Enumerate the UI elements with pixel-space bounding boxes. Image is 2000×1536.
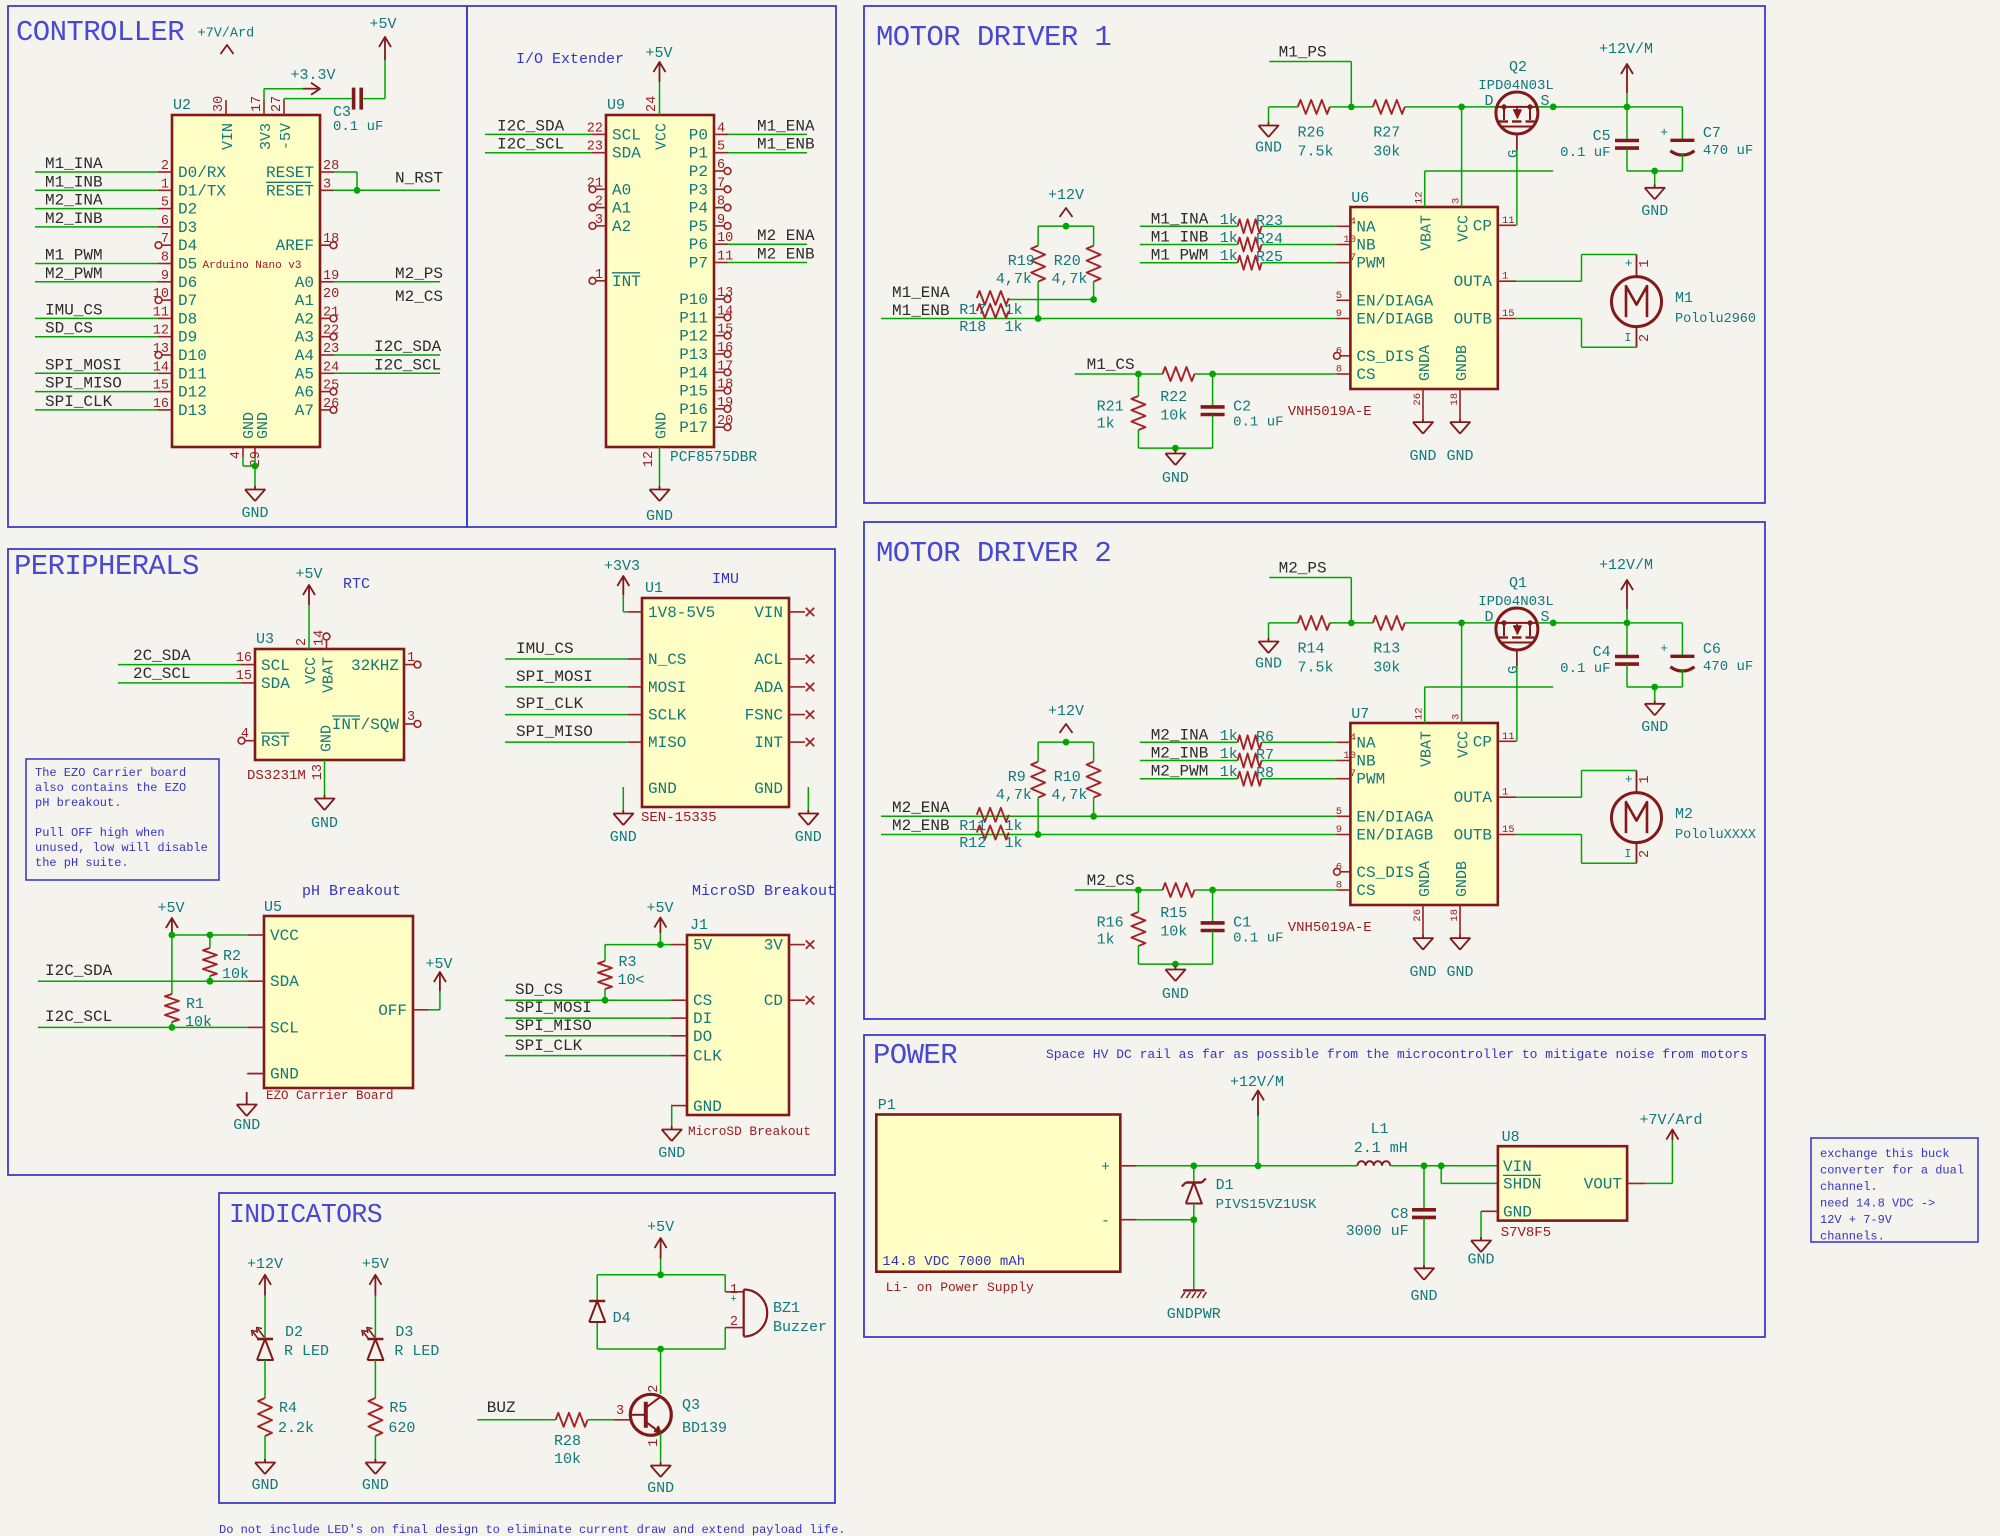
svg-text:PWM: PWM — [1356, 771, 1385, 789]
wire +5V to U9 VCC — [659, 82, 661, 115]
power symbol +12V (D2) — [247, 1256, 283, 1296]
wire OFF to +5V — [428, 991, 440, 1010]
svg-text:VCC: VCC — [270, 927, 299, 945]
wire P1 plus rail — [1137, 1162, 1358, 1169]
svg-text:GND: GND — [647, 1480, 674, 1497]
svg-text:0.1 uF: 0.1 uF — [1233, 931, 1283, 947]
svg-text:P1: P1 — [689, 145, 708, 163]
svg-text:SPI_MOSI: SPI_MOSI — [516, 668, 593, 686]
wire R5 to GND — [374, 1436, 376, 1459]
svg-text:-: - — [1101, 1213, 1110, 1230]
svg-text:A5: A5 — [295, 365, 314, 383]
svg-text:the pH suite.: the pH suite. — [35, 856, 129, 870]
svg-text:A0: A0 — [612, 181, 631, 199]
note text indicators — [219, 1523, 846, 1536]
svg-text:GNDPWR: GNDPWR — [1167, 1306, 1221, 1323]
svg-text:2: 2 — [1638, 850, 1653, 858]
LED D3 — [362, 1324, 440, 1360]
resistor R2 — [203, 935, 249, 983]
ground GND (GNDB) — [1446, 389, 1473, 465]
svg-text:R5: R5 — [389, 1400, 407, 1417]
power symbol +7V/Ard (POWER) — [1639, 1112, 1702, 1140]
svg-text:+12V: +12V — [247, 1256, 283, 1273]
resistor R19 — [996, 226, 1045, 322]
svg-text:0.1 uF: 0.1 uF — [333, 119, 383, 135]
svg-text:1: 1 — [647, 1439, 662, 1447]
svg-text:P4: P4 — [689, 200, 708, 218]
svg-text:VOUT: VOUT — [1584, 1175, 1622, 1193]
wire SHDN branch — [1441, 1166, 1499, 1184]
svg-text:GND: GND — [648, 780, 677, 798]
wire +3V3 to U1 — [623, 595, 628, 612]
svg-text:INT/SQW: INT/SQW — [332, 716, 400, 734]
wire U1 GND left — [622, 787, 624, 810]
wire + net label M1_PS — [1269, 44, 1351, 107]
svg-text:R27: R27 — [1373, 125, 1400, 142]
svg-text:1k: 1k — [1005, 319, 1023, 336]
svg-text:CS: CS — [1356, 366, 1375, 384]
svg-text:+12V/M: +12V/M — [1599, 557, 1653, 574]
wire +5V to U3 VCC — [308, 605, 310, 649]
wire + net label I2C_SDA (U2) — [334, 338, 442, 356]
svg-text:M1_ENB: M1_ENB — [892, 302, 950, 320]
IC U6 VNH5019A-E — [1288, 190, 1517, 420]
svg-text:4: 4 — [229, 451, 244, 459]
svg-text:A4: A4 — [295, 347, 314, 365]
resistor R4 — [258, 1398, 314, 1437]
svg-text:M1_ENA: M1_ENA — [757, 117, 815, 135]
svg-text:12: 12 — [1414, 707, 1426, 720]
svg-text:GND: GND — [1467, 1252, 1494, 1269]
resistor R24 — [1238, 231, 1283, 252]
wire + net label I2C_SDA (U5) — [38, 962, 248, 985]
section border I/O Extender — [467, 6, 836, 527]
svg-text:SCL: SCL — [261, 657, 290, 675]
note text POWER — [1046, 1047, 1748, 1062]
wire ENB long — [881, 834, 1336, 836]
ground GND (U3) — [311, 795, 338, 832]
svg-text:4,7k: 4,7k — [1051, 271, 1087, 288]
svg-text:+5V: +5V — [645, 45, 672, 62]
svg-text:P15: P15 — [679, 383, 708, 401]
svg-text:G: G — [1506, 666, 1522, 674]
wire D4 branch — [596, 1275, 598, 1349]
svg-text:R23: R23 — [1256, 213, 1283, 230]
ground GND (J1) — [658, 1126, 685, 1162]
ground GND (U1 left) — [610, 810, 637, 846]
svg-text:4,7k: 4,7k — [996, 787, 1032, 804]
svg-text:12V + 7-9V: 12V + 7-9V — [1820, 1213, 1893, 1227]
svg-text:A6: A6 — [295, 384, 314, 402]
transistor Q3 BD139 — [630, 1385, 727, 1447]
svg-text:A2: A2 — [612, 218, 631, 236]
svg-text:P12: P12 — [679, 328, 708, 346]
capacitor C4 — [1560, 623, 1639, 687]
svg-text:R LED: R LED — [284, 1343, 329, 1360]
svg-text:P10: P10 — [679, 291, 708, 309]
wire + net label M1_INB (U2) — [35, 173, 158, 191]
svg-text:MISO: MISO — [648, 734, 686, 752]
svg-text:1: 1 — [1638, 776, 1653, 784]
IC U2 Arduino Nano v3 — [153, 96, 339, 467]
svg-text:IPD04N03L: IPD04N03L — [1478, 594, 1554, 610]
svg-text:R6: R6 — [1256, 729, 1274, 746]
svg-text:GND: GND — [1162, 470, 1189, 487]
wire + net label M1_INA — [1140, 210, 1337, 229]
svg-text:A7: A7 — [295, 402, 314, 420]
ground GND (RC) — [1162, 450, 1189, 487]
svg-text:U1: U1 — [645, 580, 663, 597]
svg-text:5V: 5V — [693, 937, 713, 955]
svg-text:A1: A1 — [612, 200, 631, 218]
svg-text:D1: D1 — [1216, 1177, 1234, 1194]
svg-text:MicroSD Breakout: MicroSD Breakout — [688, 1124, 811, 1139]
svg-text:10k: 10k — [1160, 924, 1187, 941]
wire + net label M2_PWM — [1140, 763, 1337, 782]
svg-text:R28: R28 — [554, 1433, 581, 1450]
svg-text:DI: DI — [693, 1010, 712, 1028]
svg-text:M1_PS: M1_PS — [1279, 44, 1327, 62]
svg-text:IMU_CS: IMU_CS — [516, 640, 574, 658]
wire + net label BUZ — [477, 1399, 555, 1420]
svg-text:7: 7 — [1350, 252, 1356, 264]
wire R-R junction — [1330, 104, 1373, 111]
svg-text:N_RST: N_RST — [395, 169, 443, 187]
wire MOSFET S to +12V/M rail — [1538, 620, 1683, 627]
svg-text:GND: GND — [1641, 719, 1668, 736]
wire pullup rail — [1038, 739, 1094, 746]
svg-text:4,7k: 4,7k — [996, 271, 1032, 288]
resistor R16 — [1097, 890, 1146, 964]
svg-text:14.8 VDC 7000 mAh: 14.8 VDC 7000 mAh — [882, 1254, 1025, 1270]
svg-text:GND: GND — [270, 1066, 299, 1084]
resistor R20 — [1051, 226, 1100, 303]
svg-text:R8: R8 — [1256, 765, 1274, 782]
svg-text:need 14.8 VDC ->: need 14.8 VDC -> — [1820, 1197, 1935, 1211]
wire +5V/R3 to J1 5V — [605, 933, 671, 948]
svg-text:NA: NA — [1356, 218, 1376, 236]
svg-text:D3: D3 — [395, 1324, 413, 1341]
svg-text:SPI_CLK: SPI_CLK — [516, 695, 584, 713]
svg-text:R25: R25 — [1256, 249, 1283, 266]
svg-text:I2C_SDA: I2C_SDA — [374, 338, 442, 356]
svg-text:IMU_CS: IMU_CS — [45, 301, 103, 319]
svg-text:2.1 mH: 2.1 mH — [1354, 1140, 1408, 1157]
svg-text:SPI_MISO: SPI_MISO — [515, 1017, 592, 1035]
svg-text:1k: 1k — [1097, 416, 1115, 433]
svg-text:7.5k: 7.5k — [1298, 144, 1334, 161]
wire + net label SD_CS (U2) — [35, 320, 158, 338]
ground GND (M1_PS rail) — [1255, 122, 1282, 157]
wire +5V to U5 VCC — [169, 932, 249, 939]
svg-text:P13: P13 — [679, 346, 708, 364]
wire + net label M2_INB (U2) — [35, 210, 158, 228]
svg-text:P17: P17 — [679, 419, 708, 437]
svg-text:U9: U9 — [607, 97, 625, 114]
svg-text:VNH5019A-E: VNH5019A-E — [1288, 920, 1372, 936]
svg-text:Pull OFF high when: Pull OFF high when — [35, 826, 165, 840]
svg-text:U2: U2 — [173, 97, 191, 114]
svg-text:C1: C1 — [1233, 915, 1251, 932]
IC U3 DS3231M RTC — [236, 576, 421, 784]
wire Q3 emitter to GND — [660, 1433, 662, 1462]
svg-text:A0: A0 — [295, 274, 314, 292]
svg-text:M2_INA: M2_INA — [45, 192, 103, 210]
wire pullup rail — [1038, 223, 1094, 230]
net label M2_CS — [395, 288, 443, 306]
wire + net label 2C_SDA — [118, 647, 241, 665]
capacitor C1 — [1201, 890, 1284, 964]
svg-text:U3: U3 — [256, 631, 274, 648]
svg-text:D11: D11 — [178, 365, 207, 383]
wire U9 GND pin — [659, 447, 661, 486]
svg-text:MOTOR DRIVER 1: MOTOR DRIVER 1 — [876, 21, 1111, 54]
svg-text:10<: 10< — [618, 972, 645, 989]
svg-text:R10: R10 — [1054, 769, 1081, 786]
svg-text:P7: P7 — [689, 255, 708, 273]
wire R4 to GND — [264, 1436, 266, 1459]
capacitor C5 — [1560, 107, 1639, 171]
wire 3V3 to +3.3V — [264, 89, 303, 100]
svg-text:U7: U7 — [1351, 706, 1369, 723]
svg-text:M2_CS: M2_CS — [395, 288, 443, 306]
power symbol +5V (OFF) — [425, 956, 452, 991]
wire OUTA to motor — [1516, 255, 1636, 282]
wire + net label M2_INA — [1140, 726, 1337, 745]
svg-text:GND: GND — [610, 829, 637, 846]
svg-text:GND: GND — [795, 829, 822, 846]
wire + net label SPI_CLK (IMU) — [505, 695, 628, 715]
svg-text:+12V/M: +12V/M — [1230, 1074, 1284, 1091]
svg-text:P11: P11 — [679, 309, 708, 327]
svg-text:P2: P2 — [689, 163, 708, 181]
IC U1 IMU SEN-15335 — [628, 571, 814, 826]
ground GND (U9) — [646, 486, 673, 525]
svg-text:D10: D10 — [178, 347, 207, 365]
wire cap bottoms — [1627, 168, 1682, 175]
resistor R26 — [1298, 100, 1334, 161]
svg-text:R26: R26 — [1298, 125, 1325, 142]
inductor L1 — [1354, 1121, 1408, 1166]
svg-text:IMU: IMU — [712, 571, 739, 588]
wire C3 to +5V riser — [363, 60, 385, 99]
svg-text:P0: P0 — [689, 126, 708, 144]
svg-text:M2_ENA: M2_ENA — [892, 799, 950, 817]
power symbol +5V (BZ1) — [647, 1219, 674, 1259]
svg-text:CONTROLLER: CONTROLLER — [16, 16, 184, 49]
power symbol +12V/M (POWER) — [1230, 1074, 1284, 1116]
wire + net label M2_CS — [1075, 872, 1337, 893]
wire buzzer top rail — [597, 1274, 725, 1276]
svg-text:AREF: AREF — [276, 237, 314, 255]
svg-text:R16: R16 — [1097, 915, 1124, 932]
IC U5 EZO Carrier Board — [248, 883, 428, 1103]
svg-text:30k: 30k — [1373, 660, 1400, 677]
svg-text:INT: INT — [612, 273, 641, 291]
svg-text:CP: CP — [1473, 733, 1492, 751]
svg-text:GND: GND — [1410, 1288, 1437, 1305]
svg-text:3V3: 3V3 — [258, 123, 275, 150]
svg-text:GND: GND — [311, 815, 338, 832]
svg-text:D13: D13 — [178, 402, 207, 420]
svg-text:SCL: SCL — [612, 126, 641, 144]
wire rail to MOSFET D — [1405, 620, 1496, 627]
transistor Q1 IPD04N03L — [1478, 575, 1554, 674]
wire U1 GND right — [807, 787, 809, 810]
svg-text:30k: 30k — [1373, 144, 1400, 161]
svg-text:SPI_CLK: SPI_CLK — [515, 1037, 583, 1055]
svg-text:VCC: VCC — [654, 123, 671, 150]
svg-text:M2 ENB: M2 ENB — [757, 246, 815, 264]
wire OUTB to motor — [1516, 319, 1636, 348]
svg-text:SPI_MISO: SPI_MISO — [45, 375, 122, 393]
svg-text:2C_SDA: 2C_SDA — [133, 647, 191, 665]
IC U9 PCF8575DBR — [587, 96, 758, 467]
svg-text:+7V/Ard: +7V/Ard — [1639, 1112, 1702, 1129]
svg-text:D5: D5 — [178, 256, 197, 274]
wire + net label M1_CS — [1075, 356, 1337, 377]
svg-text:C7: C7 — [1703, 125, 1721, 142]
svg-text:OUTA: OUTA — [1454, 789, 1493, 807]
section title MOTOR DRIVER 2 — [876, 537, 1111, 570]
svg-text:M2_INB: M2_INB — [45, 210, 103, 228]
wire D3 to R5 — [374, 1360, 376, 1398]
svg-text:C2: C2 — [1233, 399, 1251, 416]
svg-text:GND: GND — [658, 1145, 685, 1162]
resistor R13 — [1373, 616, 1405, 677]
svg-text:channel.: channel. — [1820, 1180, 1878, 1194]
wire + net label M2_INA (U2) — [35, 192, 158, 210]
svg-text:+5V: +5V — [369, 16, 396, 33]
svg-text:I/O Extender: I/O Extender — [516, 51, 624, 68]
wire R28 to Q3 base — [588, 1404, 630, 1420]
resistor R12 — [959, 826, 1022, 853]
wire + net label I2C_SCL (U2) — [334, 356, 441, 374]
svg-text:4: 4 — [1350, 216, 1356, 228]
wire ENA segment — [1009, 299, 1094, 301]
svg-text:RESET: RESET — [266, 182, 314, 200]
svg-text:2: 2 — [1638, 334, 1653, 342]
resistor R17 — [959, 291, 1022, 319]
net label M1_ENB — [892, 302, 950, 320]
svg-text:EN/DIAGA: EN/DIAGA — [1356, 292, 1433, 310]
svg-text:Li- on Power Supply: Li- on Power Supply — [886, 1280, 1034, 1295]
buzzer BZ1 — [730, 1283, 827, 1337]
wire + net label M1_ENA (U9) — [728, 117, 815, 135]
svg-text:SPI_MOSI: SPI_MOSI — [515, 999, 592, 1017]
ground GND (U8) — [1467, 1237, 1494, 1269]
svg-text:exchange this buck: exchange this buck — [1820, 1147, 1950, 1161]
wire buzzer bottom rail — [597, 1346, 725, 1353]
svg-text:ADA: ADA — [754, 679, 783, 697]
svg-text:VCC: VCC — [303, 657, 320, 684]
svg-text:BD139: BD139 — [682, 1420, 727, 1437]
power symbol +5V (U9) — [645, 45, 672, 82]
diode D1 PIVS15VZ1USK — [1182, 1166, 1317, 1220]
ground GND (U5) — [233, 1092, 260, 1134]
svg-text:Q2: Q2 — [1509, 59, 1527, 76]
svg-text:M2_CS: M2_CS — [1087, 872, 1135, 890]
svg-text:4: 4 — [1350, 732, 1356, 744]
power symbol +12V/M (MD1) — [1599, 41, 1653, 93]
svg-text:P6: P6 — [689, 236, 708, 254]
svg-text:0.1 uF: 0.1 uF — [1560, 145, 1610, 161]
svg-text:Space HV DC rail as far as pos: Space HV DC rail as far as possible from… — [1046, 1047, 1748, 1062]
svg-text:3: 3 — [616, 1404, 624, 1419]
section title CONTROLLER — [16, 16, 184, 49]
svg-text:1k: 1k — [1005, 835, 1023, 852]
svg-text:BUZ: BUZ — [487, 1399, 516, 1417]
wire + net label SPI_MOSI (IMU) — [505, 668, 628, 687]
svg-text:DS3231M: DS3231M — [247, 768, 306, 784]
svg-text:EN/DIAGA: EN/DIAGA — [1356, 808, 1433, 826]
resistor R7 — [1238, 747, 1274, 768]
svg-text:R19: R19 — [1008, 253, 1035, 270]
svg-text:620: 620 — [388, 1420, 415, 1437]
svg-text:CS_DIS: CS_DIS — [1356, 348, 1414, 366]
svg-text:converter for a dual: converter for a dual — [1820, 1164, 1964, 1178]
svg-text:C4: C4 — [1593, 644, 1611, 661]
svg-text:D1/TX: D1/TX — [178, 182, 226, 200]
svg-text:D4: D4 — [178, 237, 197, 255]
section title PERIPHERALS — [14, 550, 199, 583]
wire + net label M2_INB — [1140, 745, 1337, 764]
ground GND (U1 right) — [795, 810, 822, 846]
section title INDICATORS — [229, 1200, 382, 1230]
wire + net label IMU_CS — [505, 640, 628, 659]
svg-text:D3: D3 — [178, 219, 197, 237]
wire + net label 2C_SCL — [118, 665, 241, 683]
svg-text:GNDA: GNDA — [1417, 345, 1434, 381]
ground GNDPWR — [1167, 1290, 1221, 1323]
ground GND (U2) — [241, 486, 268, 522]
svg-text:M2_PWM: M2_PWM — [45, 265, 103, 283]
svg-text:A1: A1 — [295, 292, 314, 310]
wire +12V/M riser (POWER) — [1257, 1116, 1259, 1166]
svg-text:R3: R3 — [619, 954, 637, 971]
svg-text:A2: A2 — [295, 310, 314, 328]
svg-text:P1: P1 — [878, 1097, 896, 1114]
svg-text:RTC: RTC — [343, 576, 370, 593]
svg-text:I2C_SCL: I2C_SCL — [497, 136, 564, 154]
ground GND (M2_PS rail) — [1255, 638, 1282, 673]
svg-text:M2_PS: M2_PS — [395, 265, 443, 283]
svg-text:GND: GND — [1255, 140, 1282, 157]
wire + net label SD_CS — [505, 981, 671, 1004]
svg-text:10k: 10k — [185, 1014, 212, 1031]
wire P1 minus — [1137, 1216, 1198, 1223]
svg-text:MOTOR DRIVER 2: MOTOR DRIVER 2 — [876, 537, 1111, 570]
resistor R10 — [1051, 742, 1100, 820]
svg-text:I2C_SCL: I2C_SCL — [374, 356, 441, 374]
svg-text:R20: R20 — [1054, 253, 1081, 270]
svg-text:unused, low will disable: unused, low will disable — [35, 841, 208, 855]
svg-text:I: I — [1624, 331, 1631, 345]
svg-text:Q3: Q3 — [682, 1397, 700, 1414]
svg-text:10k: 10k — [1160, 408, 1187, 425]
svg-text:PololuXXXX: PololuXXXX — [1675, 828, 1756, 843]
svg-text:+7V/Ard: +7V/Ard — [198, 27, 255, 42]
svg-text:+: + — [1625, 772, 1633, 787]
svg-text:U8: U8 — [1502, 1129, 1520, 1146]
svg-text:Q1: Q1 — [1509, 575, 1527, 592]
wire to GNDPWR — [1193, 1220, 1195, 1291]
svg-text:GND: GND — [1409, 964, 1436, 981]
svg-text:+5V: +5V — [647, 1219, 674, 1236]
svg-text:FSNC: FSNC — [745, 707, 783, 725]
svg-text:M1_INA: M1_INA — [45, 155, 103, 173]
resistor R9 — [996, 742, 1045, 838]
